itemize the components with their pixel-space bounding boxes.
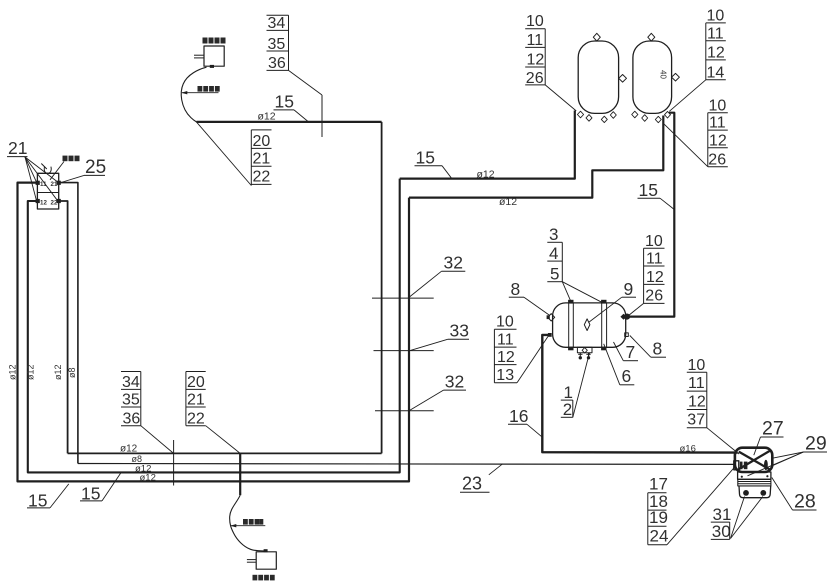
svg-text:15: 15 (275, 92, 294, 112)
chinese annotation below bottom box (253, 575, 275, 581)
pipe label ø12 (pipe 2) (499, 196, 517, 208)
svg-text:12: 12 (527, 51, 545, 68)
svg-text:28: 28 (794, 490, 816, 512)
label 15 (top pipe) (274, 92, 309, 122)
port 22 square (57, 199, 61, 203)
annotation arrow line (rear hose) (230, 524, 265, 527)
drain valve 1/2 flange (577, 347, 592, 359)
svg-text:10: 10 (645, 233, 663, 250)
wire: hose to bottom brake chamber (S-curve) (230, 495, 264, 551)
svg-text:7: 7 (626, 342, 636, 362)
svg-text:35: 35 (268, 36, 286, 53)
svg-text:22: 22 (253, 169, 271, 186)
svg-text:26: 26 (526, 70, 544, 87)
svg-text:6: 6 (622, 366, 632, 386)
svg-text:34: 34 (122, 374, 140, 391)
svg-text:ø8: ø8 (67, 367, 77, 378)
wire: drop pipe to rear brake chamber x=240.2 (239, 453, 241, 495)
svg-text:34: 34 (268, 15, 286, 32)
wire: pipe B (23-line, ø8) from valve port 21 to rear valve (59, 183, 736, 465)
svg-text:27: 27 (762, 417, 784, 439)
svg-text:20: 20 (187, 374, 205, 391)
svg-text:10: 10 (707, 8, 725, 25)
svg-text:12: 12 (709, 132, 727, 149)
svg-text:ø12: ø12 (477, 169, 495, 181)
label 23 (460, 464, 503, 494)
svg-text:21: 21 (187, 391, 205, 408)
label stack 20/21/22 (top) (196, 122, 271, 186)
label stack 17/18/19/24 (648, 466, 736, 545)
wire: hose to top brake chamber (C-curve) (181, 67, 206, 122)
svg-text:8: 8 (511, 279, 521, 299)
chinese annotation on front hose arrow (198, 86, 220, 92)
wire: left vertical x=67.6 from valve port 22 (59, 201, 68, 453)
svg-text:35: 35 (122, 391, 140, 408)
svg-text:12: 12 (40, 199, 47, 206)
svg-text:13: 13 (496, 367, 514, 384)
label stack 34/35/36 (bottom) (121, 372, 174, 454)
label 6 (604, 344, 635, 386)
air tank 10 (right) (632, 33, 680, 122)
svg-text:12: 12 (497, 349, 515, 366)
svg-text:2: 2 (563, 400, 572, 419)
pipe label ø16 (680, 443, 696, 454)
label 32 (upper) with tick (372, 253, 465, 299)
svg-text:15: 15 (639, 180, 658, 200)
svg-text:10: 10 (709, 97, 727, 114)
svg-text:22: 22 (187, 410, 205, 427)
pipe label ø12 (top pipe) (258, 111, 276, 123)
label stack 10/11/12/13 (wet tank left) (494, 314, 548, 385)
port 13 lower-left square (548, 333, 552, 337)
svg-text:9: 9 (624, 279, 634, 299)
svg-text:11: 11 (497, 332, 514, 349)
svg-text:19: 19 (649, 508, 668, 527)
label stack 10/11/12/26 (right tank lower) (663, 97, 728, 168)
svg-text:4: 4 (549, 244, 558, 263)
svg-text:26: 26 (708, 151, 726, 168)
svg-text:21: 21 (8, 138, 27, 158)
rotated pipe labels on left verticals (8, 364, 78, 380)
svg-text:11: 11 (707, 25, 724, 42)
relay valve assembly (bottom right) (734, 448, 773, 498)
bottom pipe labels ø12 ø8 ø12 ø12 (120, 444, 156, 484)
strap bolts 5 (568, 300, 606, 351)
label stack 10/11/12/14 (right tank upper) (670, 8, 726, 112)
svg-text:8: 8 (653, 339, 663, 359)
port 12 square (36, 199, 40, 203)
svg-text:ø12: ø12 (499, 196, 517, 208)
wire: top pipe circuit1 (port22 to front hose), y=122 (196, 121, 381, 123)
label stack 3/4/5 (547, 225, 602, 302)
wire: pipe 2 from right tank bottom port, steps down to riser x=409 (409, 116, 663, 198)
svg-text:31: 31 (713, 505, 732, 524)
label 32 (lower) with tick (375, 371, 466, 410)
svg-text:5: 5 (550, 265, 559, 284)
wet air tank (horizontal) body (553, 303, 626, 347)
pipe label ø12 (pipe 1) (477, 169, 495, 181)
svg-text:20: 20 (253, 133, 271, 150)
air tank 10 (left) (577, 33, 626, 122)
svg-text:ø8: ø8 (132, 454, 143, 464)
svg-text:ø12: ø12 (53, 364, 63, 380)
clamp tick on top pipe (321, 95, 323, 137)
label stack 10/11/12/26 (left tank) (525, 13, 576, 111)
wire: pipe 15 right, tank2 bottom-right down to wet tank right port (630, 113, 675, 317)
svg-text:12: 12 (646, 269, 664, 286)
chinese annotation above top box (203, 38, 226, 44)
hand brake valve lever (41, 164, 51, 174)
annotation arrow line (front hose) (181, 91, 218, 94)
label stack 1/2 (drain valve) (561, 353, 590, 419)
svg-text:1: 1 (564, 383, 573, 402)
label 9 (center diamond) (589, 279, 637, 323)
wire: pipe D circuit3 from valve port 11, x=17.5 down, y=481.4 right, riser x=409 (18, 183, 410, 482)
svg-text:21: 21 (253, 151, 271, 168)
svg-text:ø12: ø12 (258, 111, 276, 123)
label 21 with fan leaders to four ports (7, 138, 57, 200)
svg-text:33: 33 (450, 320, 469, 340)
svg-text:15: 15 (416, 147, 435, 167)
label 15 (bottom left inner) (80, 473, 121, 504)
svg-text:10: 10 (526, 13, 544, 30)
svg-text:36: 36 (268, 55, 286, 72)
front brake chamber (top box) (194, 46, 224, 68)
label stack 34/35/36 (top) (267, 15, 323, 95)
label stack 10/11/12/26 (wet tank right) (628, 233, 664, 316)
chinese annotation near hand valve (50, 156, 80, 180)
chinese annotation on rear hose arrow (243, 519, 263, 525)
wire: vertical riser x=381.6 joining top pipe to bottom pipe A (381, 122, 383, 454)
svg-text:11: 11 (709, 115, 726, 132)
svg-text:11: 11 (646, 251, 663, 268)
hand brake valve 25 body (37, 173, 58, 209)
svg-text:40: 40 (659, 70, 668, 79)
port 8 lower-right square (625, 333, 629, 337)
wire: pipe 16 from wet tank lower-left port down and right to rear valve (542, 335, 737, 453)
svg-text:32: 32 (444, 253, 463, 273)
port 9 center diamond (584, 319, 590, 331)
svg-text:37: 37 (687, 412, 705, 429)
label 27 (754, 417, 784, 455)
label 8 (left port) (509, 279, 550, 316)
label 15 (pipe 1) (415, 147, 452, 178)
label 7 (614, 342, 639, 362)
svg-text:11: 11 (527, 32, 544, 49)
svg-text:12: 12 (707, 45, 725, 62)
svg-text:17: 17 (649, 475, 668, 494)
label 33 with tick (374, 320, 470, 350)
svg-text:14: 14 (707, 65, 725, 82)
svg-text:ø12: ø12 (26, 364, 36, 380)
label stack 10/11/12/37 (687, 357, 739, 454)
port 11 square (36, 181, 40, 185)
label 15 (bottom left outer) (27, 484, 69, 511)
label 8 (lower right port) (630, 336, 666, 359)
svg-text:16: 16 (509, 406, 528, 426)
svg-text:32: 32 (445, 371, 464, 391)
wire: pipe 1 from left tank bottom port to riser x=399.7 (400, 111, 575, 179)
svg-text:26: 26 (645, 288, 663, 305)
svg-text:25: 25 (85, 157, 106, 178)
label stack 20/21/22 (bottom) (186, 372, 240, 454)
svg-text:ø12: ø12 (8, 364, 18, 380)
svg-text:ø16: ø16 (680, 443, 696, 454)
svg-text:12: 12 (688, 393, 706, 410)
port 26 right connector (black) (620, 314, 630, 320)
label 28 (772, 478, 817, 513)
port 21 square (57, 181, 61, 185)
svg-text:10: 10 (688, 357, 706, 374)
svg-text:3: 3 (549, 225, 558, 244)
svg-text:23: 23 (462, 474, 482, 494)
label 16 (508, 406, 542, 437)
label 25 (61, 157, 106, 183)
rear brake chamber (bottom box) (247, 549, 276, 569)
svg-text:ø12: ø12 (140, 472, 156, 483)
clamp tick crossing bottom pipes (173, 440, 175, 486)
svg-text:24: 24 (650, 527, 669, 546)
wire: pipe C circuit2 from valve port 12, x=27.8 down, y=472.4 right, riser x=399.7 (28, 179, 400, 473)
svg-text:36: 36 (123, 410, 141, 427)
svg-text:10: 10 (496, 314, 514, 331)
label 29 with three leaders (748, 432, 828, 475)
wire: pipe A horizontal y=453.4 from left loop x=67.6 to riser (68, 452, 382, 454)
svg-text:29: 29 (805, 432, 827, 454)
label stack 31/30 (711, 497, 763, 542)
port 8 left diamond (547, 314, 555, 321)
svg-text:11: 11 (688, 375, 705, 392)
svg-text:30: 30 (712, 522, 731, 541)
label 15 (right drop pipe) (638, 180, 675, 210)
